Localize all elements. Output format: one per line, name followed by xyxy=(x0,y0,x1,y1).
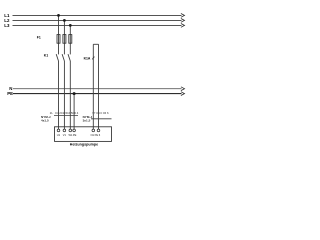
svg-text:N1 PE 6: N1 PE 6 xyxy=(91,133,101,137)
svg-text:U1: U1 xyxy=(57,133,61,137)
svg-text:L3: L3 xyxy=(4,23,10,28)
svg-text:Heizungspumpe: Heizungspumpe xyxy=(70,143,98,147)
svg-text:PE: PE xyxy=(73,133,77,137)
svg-text:K1: K1 xyxy=(44,54,48,58)
svg-text:V1: V1 xyxy=(63,133,67,137)
svg-text:C4 2C2/3C4 5C6 4: C4 2C2/3C4 5C6 4 xyxy=(55,111,79,115)
svg-text:Y7 C4 0 C6 6: Y7 C4 0 C6 6 xyxy=(92,111,109,115)
svg-text:4x1,5: 4x1,5 xyxy=(41,118,49,122)
svg-text:PE: PE xyxy=(7,91,13,96)
svg-text:F1: F1 xyxy=(37,36,41,40)
svg-text:3x1,5: 3x1,5 xyxy=(83,118,91,122)
svg-text:K1A: K1A xyxy=(84,57,91,61)
